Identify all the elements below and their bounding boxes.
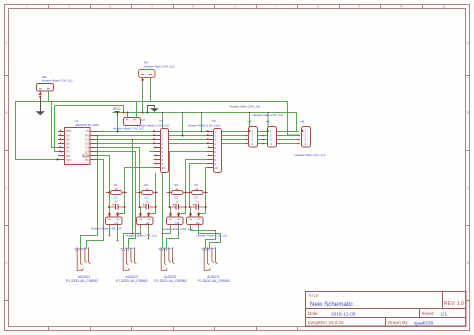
- svg-text:PJ-320D-4A_C95562: PJ-320D-4A_C95562: [154, 279, 186, 283]
- wire A top long run + left rail to 3V3 pin: [16, 102, 288, 160]
- svg-text:1u: 1u: [115, 199, 119, 203]
- capacitor C2: [139, 204, 157, 210]
- label H4 part name: [197, 234, 228, 238]
- wire rail D1 down to AUDIO3 elbow: [132, 140, 134, 234]
- junction at 109.5,235.5: [109, 235, 111, 237]
- label AUDIO2 refdes and part: [154, 275, 186, 283]
- header H7: [124, 118, 141, 126]
- wire H1 pin1 down: [109, 224, 111, 235]
- svg-text:D4: D4: [85, 150, 89, 154]
- svg-text:Header-Male-2.54_1x10: Header-Male-2.54_1x10: [188, 123, 221, 127]
- svg-text:4: 4: [151, 5, 153, 9]
- wire col2 node to H2: [141, 207, 156, 217]
- header H3: [167, 212, 184, 225]
- header H5: [249, 127, 258, 148]
- audio jack AUDIO1: [202, 247, 218, 270]
- wire P2 pin10 to col4 right: [206, 168, 208, 193]
- label C1 refdes and value: [114, 196, 119, 204]
- wire col1 R-C links: [110, 193, 125, 208]
- svg-text:C1: C1: [114, 196, 118, 200]
- wire col3 node to H3: [171, 207, 186, 217]
- wire A right drop to H8 pin2: [288, 102, 300, 136]
- svg-text:D3: D3: [85, 146, 89, 150]
- ground mid: [148, 106, 159, 113]
- svg-text:H8: H8: [300, 120, 304, 124]
- svg-text:D6: D6: [66, 146, 70, 150]
- wire col2 R-C links: [140, 193, 156, 208]
- right ticks: [466, 76, 470, 301]
- junction at 123.5,112.5: [123, 112, 125, 114]
- svg-text:TX: TX: [85, 129, 89, 133]
- svg-text:9: 9: [358, 5, 360, 9]
- label P2 refdes and part: [188, 119, 221, 127]
- frame index labels: [5, 5, 470, 265]
- label R4 refdes and value: [194, 183, 199, 191]
- junction at 246.3,135.5: [246, 135, 248, 137]
- junction at 127.5,112.5: [127, 112, 129, 114]
- wire drop C to H6 pin1: [267, 113, 269, 131]
- svg-text:D0: D0: [66, 137, 70, 141]
- resistor R3: [166, 191, 188, 195]
- svg-text:Drawn By:: Drawn By:: [388, 320, 409, 325]
- wire H2 to AUDIO3: [124, 224, 141, 248]
- wire drop C to rail1: [201, 113, 203, 132]
- svg-text:Header-Male-2.54_1x2: Header-Male-2.54_1x2: [197, 234, 228, 238]
- svg-text:1/1: 1/1: [441, 311, 448, 317]
- svg-text:1k: 1k: [145, 187, 149, 191]
- svg-text:R3: R3: [174, 183, 178, 187]
- svg-text:5: 5: [192, 5, 194, 9]
- left ticks: [5, 76, 9, 301]
- svg-text:VCC: VCC: [113, 107, 121, 111]
- junction at 299,135.5: [298, 135, 300, 137]
- svg-text:H3: H3: [176, 221, 180, 225]
- svg-text:Header-Male-2.54_1x4: Header-Male-2.54_1x4: [230, 104, 261, 108]
- svg-text:7: 7: [275, 5, 277, 9]
- header H10: [37, 84, 54, 96]
- junction at 162.5,233.5: [162, 233, 164, 235]
- label P1 refdes and part: [137, 119, 170, 127]
- svg-text:H1: H1: [115, 221, 119, 225]
- label H2 part name: [126, 234, 157, 238]
- junction at 148.5,238.5: [148, 238, 150, 240]
- svg-text:B: B: [467, 111, 469, 115]
- svg-text:U1: U1: [75, 119, 79, 123]
- capacitor C1: [108, 204, 126, 210]
- junction at 263.3,139.5: [263, 139, 265, 141]
- svg-text:3V3: 3V3: [66, 158, 71, 162]
- label U1 refdes and part: [75, 119, 99, 127]
- junction at 246.3,139.5: [246, 139, 248, 141]
- label C2 refdes and value: [144, 196, 149, 204]
- wire P1 pin10 to col1 right: [125, 168, 154, 193]
- capacitor C3: [169, 204, 187, 210]
- svg-text:sjaak538: sjaak538: [414, 320, 434, 326]
- svg-text:H7: H7: [141, 118, 145, 122]
- resistor R2: [136, 191, 158, 195]
- label H5 refdes and part: [230, 104, 261, 123]
- wire D6 riser: [52, 102, 59, 148]
- svg-text:2018-12-05: 2018-12-05: [331, 311, 356, 317]
- svg-text:1u: 1u: [145, 199, 149, 203]
- wire H7 pin1 stub-up: [127, 113, 129, 118]
- bottom ticks: [49, 327, 298, 331]
- junction at 57.5,159.5: [57, 159, 59, 161]
- svg-text:Header-Male-2.54_1x2: Header-Male-2.54_1x2: [42, 79, 73, 83]
- header H9 top-middle: [139, 70, 156, 81]
- wire P1 pin6 stubwire: [149, 151, 154, 153]
- svg-text:C2: C2: [144, 196, 148, 200]
- label C4 refdes and value: [194, 196, 199, 204]
- junction at 182.5,135.5: [182, 135, 184, 137]
- svg-text:D8: D8: [66, 154, 70, 158]
- connector P1: [153, 129, 168, 173]
- junction at 117.5,131.5: [117, 131, 119, 133]
- svg-text:D5: D5: [66, 142, 70, 146]
- svg-text:Date:: Date:: [308, 311, 319, 316]
- wire rail2 RX row: [98, 135, 300, 137]
- junction at 147.5,112.5: [147, 112, 149, 114]
- left pin stubs: [58, 130, 97, 160]
- junction at 162.5,112.5: [162, 112, 164, 114]
- audio jack AUDIO2: [159, 247, 175, 270]
- pin names: [66, 129, 89, 162]
- wire col4 R-C links: [190, 193, 206, 208]
- svg-text:PJ-320D-4A_C95562: PJ-320D-4A_C95562: [66, 279, 98, 283]
- junction at 132.5,139.5: [132, 139, 134, 141]
- svg-text:RX: RX: [85, 133, 89, 137]
- svg-text:H5: H5: [248, 120, 252, 124]
- svg-text:C4: C4: [194, 196, 198, 200]
- wire rail4 D2 row: [98, 143, 300, 145]
- wire col1 node to H1: [110, 207, 125, 217]
- junction at 246.3,143.5: [246, 143, 248, 145]
- svg-text:H9: H9: [144, 61, 148, 65]
- svg-text:6: 6: [234, 5, 236, 9]
- svg-text:Sheet:: Sheet:: [422, 311, 435, 316]
- svg-text:1u: 1u: [195, 199, 199, 203]
- svg-text:A0: A0: [66, 133, 70, 137]
- junction at 248.5,112.5: [249, 112, 251, 114]
- label AUDIO3 refdes and part: [116, 275, 148, 283]
- resistor R1: [106, 191, 128, 195]
- label H9 refdes and part: [144, 61, 175, 69]
- junction at 263.3,135.5: [263, 135, 265, 137]
- svg-text:1k: 1k: [175, 187, 179, 191]
- svg-text:1k: 1k: [115, 187, 119, 191]
- label H1 part name: [91, 226, 122, 230]
- audio jack AUDIO3: [121, 247, 137, 270]
- VCC text: [113, 107, 121, 111]
- wire rail1 TX row: [98, 131, 300, 133]
- svg-text:R4: R4: [194, 183, 198, 187]
- wire P2 pin9 to col4 left: [190, 164, 208, 193]
- wire drop C to rail2: [182, 113, 184, 136]
- svg-text:P2: P2: [212, 119, 216, 123]
- svg-text:10: 10: [162, 166, 166, 170]
- label H7 refdes and part: [113, 118, 145, 131]
- junction at 266.5,112.5: [267, 112, 269, 114]
- title block values: [310, 301, 448, 326]
- title block: [306, 292, 467, 327]
- svg-text:Header-Male-2.54_1x2: Header-Male-2.54_1x2: [144, 64, 175, 68]
- svg-text:R2: R2: [144, 183, 148, 187]
- svg-text:REV: 1.0: REV: 1.0: [444, 301, 464, 307]
- svg-text:5V: 5V: [86, 158, 90, 162]
- svg-text:D2: D2: [85, 142, 89, 146]
- label H10 refdes and part: [42, 75, 73, 82]
- wire D4 rail down to AUDIO3: [97, 152, 135, 249]
- svg-text:RST: RST: [66, 129, 72, 133]
- junction at 299,143.5: [298, 143, 300, 145]
- svg-text:1k: 1k: [195, 187, 199, 191]
- label H3 part name: [162, 227, 193, 231]
- chip U1 WEMOS D1 MINI: [58, 128, 97, 165]
- junction at 51.5,101.5: [51, 101, 53, 103]
- junction at 182.5,112.5: [182, 112, 184, 114]
- audio jack AUDIO4: [75, 247, 91, 270]
- junction at 201.5,131.5: [201, 131, 203, 133]
- svg-text:WEMOS D1 MINI: WEMOS D1 MINI: [75, 123, 99, 127]
- svg-text:New Schematic: New Schematic: [310, 301, 353, 308]
- wire drop C to H5 pin1: [249, 113, 251, 131]
- svg-text:Header-Male-2.54_1x4: Header-Male-2.54_1x4: [253, 113, 284, 117]
- svg-text:P1: P1: [160, 119, 164, 123]
- junction at 201.5,112.5: [201, 112, 203, 114]
- junction at 117.5,240.5: [117, 240, 119, 242]
- svg-text:C3: C3: [174, 196, 178, 200]
- wire GND row to col1 left: [98, 156, 110, 193]
- svg-text:3: 3: [109, 5, 111, 9]
- junction at 140.5,233.5: [140, 233, 142, 235]
- resistor R4: [186, 191, 208, 195]
- ground H10: [36, 97, 45, 116]
- svg-text:1u: 1u: [175, 199, 179, 203]
- junction at 299,139.5: [298, 139, 300, 141]
- wire col3 R-C links: [170, 193, 186, 208]
- wire riser C to rail1: [117, 113, 119, 132]
- VCC flag: [115, 112, 120, 117]
- wire H9 pin2 drop: [150, 77, 152, 101]
- wire H3 to AUDIO2: [163, 224, 171, 248]
- wire 5V rail down to AUDIO4: [87, 160, 104, 249]
- wire rail below P1 down to AUDIO2 elbow: [162, 113, 164, 234]
- svg-text:EasyEDA V5.9.22: EasyEDA V5.9.22: [308, 320, 344, 325]
- svg-text:H2: H2: [146, 221, 150, 225]
- header H4: [187, 212, 204, 225]
- svg-text:TITLE:: TITLE:: [308, 294, 319, 298]
- header H8: [301, 127, 310, 148]
- svg-text:8: 8: [317, 5, 319, 9]
- svg-text:10: 10: [214, 166, 218, 170]
- header H2: [137, 212, 154, 225]
- svg-text:11: 11: [442, 5, 446, 9]
- header H1: [106, 212, 123, 225]
- svg-text:10: 10: [399, 5, 403, 9]
- wire rail3 D1 row: [98, 139, 300, 141]
- header H6: [267, 127, 277, 148]
- svg-text:H6: H6: [266, 120, 270, 124]
- label H6 refdes and part: [253, 113, 284, 123]
- capacitor C4: [189, 204, 207, 210]
- junction at 97.5,135.5: [97, 135, 99, 137]
- svg-text:PJ-320D-4A_C95562: PJ-320D-4A_C95562: [116, 279, 148, 283]
- junction at 142.5,112.5: [142, 112, 144, 114]
- svg-text:Header-Male-2.54_1x2: Header-Male-2.54_1x2: [162, 227, 193, 231]
- svg-text:Header-Male-2.54_1x2: Header-Male-2.54_1x2: [126, 234, 157, 238]
- svg-text:Header-Male-2.54_1x2: Header-Male-2.54_1x2: [91, 226, 122, 230]
- wire col2 right under P1: [155, 173, 157, 193]
- label H8 refdes and part: [295, 120, 326, 158]
- connector P2: [207, 129, 222, 173]
- svg-text:Header-Male-2.54_1x10: Header-Male-2.54_1x10: [137, 123, 170, 127]
- svg-text:R1: R1: [114, 183, 118, 187]
- svg-text:PJ-320D-4A_C95562: PJ-320D-4A_C95562: [198, 279, 230, 283]
- junction dots: [39, 96, 300, 242]
- wire H9 pin1 long drop: [142, 77, 144, 112]
- top ticks: [49, 5, 423, 9]
- svg-text:D1: D1: [85, 137, 89, 141]
- label C3 refdes and value: [174, 196, 179, 204]
- title block field labels: [308, 294, 464, 325]
- svg-text:2: 2: [68, 5, 70, 9]
- wire D3 row to col2 left: [98, 148, 140, 193]
- label R1 refdes and value: [114, 183, 119, 191]
- wire B from D7 pin up, over, and down to wire C: [55, 106, 124, 152]
- wire H10 right pin drop: [48, 91, 50, 102]
- wire H7 pin2 up to wire A: [136, 102, 138, 118]
- wire H4 to AUDIO1: [191, 224, 216, 248]
- wire rail RX down to AUDIO4: [81, 136, 98, 249]
- junction at 263.3,143.5: [263, 143, 265, 145]
- svg-text:Header-Male-2.54_1x4: Header-Male-2.54_1x4: [295, 153, 326, 157]
- junction at 117.5,112.5: [117, 112, 119, 114]
- label R2 refdes and value: [144, 183, 149, 191]
- wire P2 pin8 to col3 right: [186, 160, 208, 193]
- wire col4 node to H4: [191, 207, 206, 217]
- svg-text:1: 1: [26, 5, 28, 9]
- svg-text:H4: H4: [196, 221, 200, 225]
- junction at 132.5,233.5: [132, 233, 134, 235]
- svg-text:D7: D7: [66, 150, 70, 154]
- label AUDIO1 refdes and part: [198, 275, 230, 283]
- label AUDIO4 refdes and part: [66, 275, 98, 283]
- svg-text:B: B: [5, 111, 7, 115]
- wire P2 pin6 to col3 left: [170, 152, 208, 193]
- label R3 refdes and value: [174, 183, 179, 191]
- wire C VCC run: [113, 113, 297, 131]
